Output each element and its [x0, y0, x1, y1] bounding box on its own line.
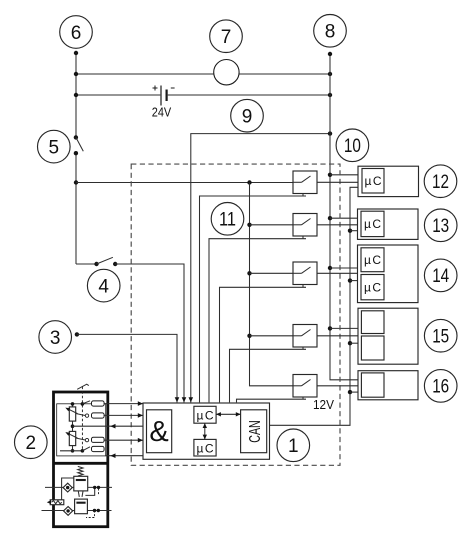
svg-text:µC: µC — [197, 441, 214, 455]
node: terminal dot under circle 8 — [328, 52, 332, 56]
module 15 output box — [358, 308, 418, 364]
microcontroller box of module 13 — [361, 211, 384, 236]
module 14 output box — [358, 245, 419, 303]
pilot valve block V2 — [75, 499, 88, 514]
switch contact lower on rail — [81, 449, 85, 453]
joystick lever — [77, 384, 89, 389]
lamp 7 symbol on wire — [214, 59, 239, 84]
module 12 output box — [358, 166, 419, 196]
node: junction right x330 y74 — [328, 72, 332, 76]
wire: control bracket A from ECU to S1 — [200, 196, 307, 402]
svg-text:24V: 24V — [152, 105, 172, 120]
label circle 11 — [211, 203, 244, 236]
node: junction x330 y95 — [328, 93, 332, 97]
svg-text:12: 12 — [432, 172, 449, 193]
pot chain wire with taps — [72, 404, 74, 451]
label circle 16 — [424, 370, 457, 403]
double arrow between microcontroller and CAN — [216, 412, 241, 416]
switch 5 main switch on left bus — [74, 135, 78, 139]
wire: control bracket D from ECU to S4 — [230, 349, 307, 402]
arrow into ECU from switch 4 — [182, 397, 187, 402]
hydraulic line 1 — [45, 486, 112, 488]
node: 12V junction module 14 — [348, 278, 352, 282]
label: battery plus sign — [153, 86, 158, 91]
svg-text:µC: µC — [364, 253, 381, 267]
svg-text:3: 3 — [50, 328, 61, 349]
wire: 12V feed module 13 — [350, 230, 362, 232]
wire: bus feed module 14 — [330, 267, 362, 269]
label circle 13 — [424, 209, 457, 242]
node: bus junction y268 — [328, 266, 332, 270]
svg-text:4: 4 — [98, 276, 109, 297]
svg-text:16: 16 — [432, 377, 449, 398]
wire: top supply wire y=74 from left bus to right bus — [76, 73, 330, 75]
tank ports between valves — [78, 491, 83, 497]
wire: input to driver S2 — [250, 224, 294, 226]
mechanical linkage dashed — [81, 387, 83, 450]
CAN interface box — [241, 410, 267, 453]
wire: 12V feed module 14 — [350, 280, 362, 282]
wire: from switch 4 right to ECU input — [115, 264, 184, 402]
pilot valve block V1 — [74, 476, 88, 491]
wire: S5 output to module 16 — [317, 385, 362, 387]
pilot supply valve at left — [50, 500, 64, 505]
svg-text:5: 5 — [49, 137, 60, 158]
check valve diamond 1 — [63, 483, 72, 492]
module 16 output box — [358, 371, 418, 400]
svg-text:8: 8 — [325, 22, 336, 43]
wire: battery wire y=95 — [76, 94, 330, 96]
label circle 14 — [424, 259, 457, 292]
svg-text:7: 7 — [221, 27, 232, 48]
arrow into ECU from supply 9 — [189, 397, 194, 402]
node: 12V junction module 15 — [348, 341, 352, 345]
wire: 12V supply line x=350 from module 12 down to ECU — [270, 187, 363, 425]
spring — [78, 466, 83, 476]
node: bus junction y218.2 — [328, 216, 332, 220]
svg-text:&: & — [149, 416, 168, 448]
arrow into ECU from terminal 3 — [175, 397, 180, 402]
module 13 output box — [358, 209, 419, 239]
wire: right bus from terminal 8 down, ends feeding module 16 — [330, 54, 362, 380]
sub box of module 16 — [361, 373, 384, 397]
potentiometer P2 — [69, 431, 75, 445]
wire: ECU ground to joystick — [106, 455, 143, 457]
wire: 12V feed module 16 — [350, 391, 362, 393]
svg-text:9: 9 — [242, 107, 253, 128]
microcontroller box 2 of module 14 — [361, 275, 384, 300]
driver switch S3 — [293, 262, 317, 287]
wire: left bus bend to switch 4 — [76, 263, 97, 265]
switch contact upper on rail — [81, 402, 85, 406]
switch 4 manual switch — [94, 262, 98, 266]
microcontroller box of module 12 — [362, 169, 384, 194]
svg-text:µC: µC — [364, 281, 381, 295]
wire: S1 output to module 12 — [317, 181, 362, 183]
wire: control bracket E from ECU to S5 — [237, 399, 307, 402]
wire: bus feed module 12 — [330, 174, 362, 176]
node: junction x249.5 y224.8 — [247, 223, 251, 227]
label circle 6 — [60, 16, 93, 49]
wire: S2 output to module 13 — [317, 224, 362, 226]
wire: bus feed module 15 — [330, 327, 362, 329]
svg-text:2: 2 — [26, 433, 37, 454]
svg-text:11: 11 — [219, 210, 236, 231]
svg-text:µC: µC — [364, 217, 381, 231]
connector pin 3 — [92, 437, 105, 442]
microcontroller box 1 in ECU — [194, 406, 216, 423]
wire: joystick signal 2 to ECU — [104, 414, 143, 416]
battery 24V: short minus plate — [166, 90, 168, 102]
label circle 7 — [210, 20, 243, 53]
svg-text:15: 15 — [432, 327, 449, 348]
wire: S4 output to module 15 — [317, 335, 359, 337]
battery 24V: long plus plate — [160, 86, 162, 106]
check valve diamond 2 — [64, 507, 73, 516]
svg-text:1: 1 — [288, 436, 299, 457]
node: junction x330 y133 — [328, 131, 332, 135]
wire: from terminal 3 to ECU input — [77, 334, 177, 402]
divider of box 2 — [54, 462, 108, 465]
svg-text:6: 6 — [71, 23, 82, 44]
microcontroller box 2 in ECU — [194, 439, 216, 456]
sub box 1 of module 15 — [361, 311, 384, 334]
wire: 12V feed module 15 — [350, 342, 362, 344]
label circle 2 — [15, 426, 48, 459]
label circle 15 — [424, 319, 457, 352]
label circle 8 — [314, 15, 347, 48]
label circle 1 — [277, 429, 310, 462]
wire: distribution line x=249.5 down with bend to driver S5 — [250, 183, 294, 386]
label circle 3 — [39, 321, 72, 354]
svg-text:µC: µC — [365, 174, 382, 188]
wire: bus feed module 13 — [330, 217, 362, 219]
node: terminal dot of input 3 — [75, 332, 79, 336]
wire: input to driver S4 — [250, 335, 294, 337]
svg-text:10: 10 — [344, 136, 361, 157]
ECU main box 1 — [143, 403, 270, 459]
driver switch S1 — [293, 171, 317, 196]
dashed boundary of central ECU 10 — [131, 164, 340, 465]
double arrow between ECU microcontrollers — [203, 423, 207, 439]
wire: left vertical bus from terminal 6 — [75, 53, 77, 264]
node: 12V junction module 13 — [348, 229, 352, 233]
label circle 5 — [38, 130, 71, 163]
node: bus junction y174.8 — [328, 173, 332, 177]
svg-text:12V: 12V — [313, 398, 335, 412]
node: 12V junction module 16 — [348, 390, 352, 394]
pilot sense dashed 2 — [86, 511, 95, 518]
connector pin 4 — [92, 446, 105, 451]
driver switch S4 — [293, 325, 317, 350]
svg-text:CAN: CAN — [247, 420, 264, 443]
node: terminal dot under circle 6 — [74, 51, 78, 55]
svg-text:µC: µC — [197, 408, 214, 422]
label circle 9 — [231, 99, 264, 132]
svg-text:13: 13 — [432, 216, 449, 237]
wire: S3 output to module 14 — [317, 272, 359, 274]
bottom rail of joystick — [60, 450, 82, 452]
node: junction x76 y182.5 to ECU switch rail — [74, 180, 78, 184]
wire: ECU reference to joystick — [73, 425, 144, 427]
label circle 12 — [424, 165, 457, 198]
node: junction x249.5 y273.3 — [247, 271, 251, 275]
connector pin 2 — [92, 413, 105, 418]
svg-text:14: 14 — [432, 266, 449, 287]
wire: joystick signal 1 to ECU — [104, 403, 143, 405]
driver switch S2 — [293, 214, 317, 239]
wire: joystick signal 3 to ECU — [104, 439, 143, 441]
wire: supply wire 9 y=133 with corner down to ECU — [191, 134, 330, 403]
potentiometer P2 wiper to contact — [76, 438, 86, 440]
node: junction x249.5 y182.5 — [247, 180, 251, 184]
inner frame of joystick electronics — [57, 404, 106, 456]
node: junction x76 y95 — [74, 93, 78, 97]
driver switch S5 — [293, 375, 317, 400]
wire: switch rail y=182.5 from left bus to driver S1 — [76, 182, 293, 184]
wire: input to driver S3 — [250, 272, 294, 274]
potentiometer P1 wiper to contact — [76, 414, 86, 416]
AND gate box — [147, 410, 172, 453]
hydraulic line 2 — [42, 510, 112, 512]
node: junction left x76 y74 — [74, 72, 78, 76]
potentiometer P1 — [69, 407, 75, 421]
node: bus junction y328.4 — [328, 326, 332, 330]
microcontroller box 1 of module 14 — [361, 248, 384, 272]
label: battery minus sign — [171, 87, 175, 89]
connector pin 1 — [92, 401, 105, 406]
sub box 2 of module 15 — [361, 336, 384, 360]
joystick unit box 2 — [54, 392, 108, 527]
label circle 10 — [336, 129, 369, 162]
drain wire from V1 — [85, 487, 94, 495]
node: junction x249.5 y335.8 — [247, 334, 251, 338]
wire from V1 to pilot inlet — [62, 478, 74, 500]
wire: control bracket C from ECU to S3 — [220, 287, 307, 402]
label circle 4 — [87, 269, 120, 302]
wire: control bracket B from ECU to S2 — [209, 239, 306, 403]
pilot sense dashed 1 — [98, 489, 100, 496]
